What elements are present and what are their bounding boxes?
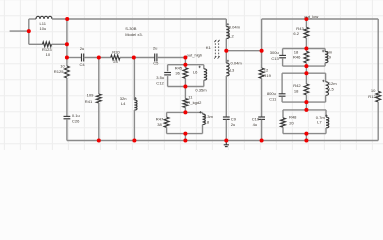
svg-text:R20: R20 [112,49,120,54]
svg-text:3.5u: 3.5u [156,75,164,80]
svg-text:L7: L7 [317,120,322,125]
svg-text:K1: K1 [206,45,212,50]
svg-text:S-30B: S-30B [125,26,137,31]
svg-text:24: 24 [113,59,118,64]
svg-text:4u: 4u [253,122,258,127]
svg-text:11: 11 [188,94,193,99]
svg-text:300u: 300u [270,50,279,55]
svg-text:R_kgd2: R_kgd2 [187,100,202,105]
svg-text:L8: L8 [205,119,210,124]
svg-text:out_high: out_high [187,52,203,57]
svg-text:L6: L6 [193,69,198,74]
svg-text:R126: R126 [368,94,378,99]
svg-text:6.2: 6.2 [293,31,299,36]
svg-text:C9: C9 [231,116,237,121]
svg-text:0.35m: 0.35m [195,88,207,93]
svg-text:10u: 10u [40,26,47,31]
svg-text:L2: L2 [229,33,234,38]
svg-text:36: 36 [175,71,180,76]
svg-text:R42: R42 [293,83,301,88]
svg-text:10: 10 [371,88,376,93]
svg-text:38: 38 [157,122,162,127]
svg-text:C10: C10 [252,116,260,121]
svg-text:out_low: out_low [304,14,318,19]
svg-text:Model x3.: Model x3. [125,32,143,37]
svg-text:12: 12 [264,67,269,72]
svg-text:2u: 2u [153,45,158,50]
svg-text:C12: C12 [156,81,164,86]
svg-text:L5: L5 [329,86,334,91]
svg-text:C4: C4 [80,62,86,67]
svg-text:C11: C11 [269,97,277,102]
svg-text:0.04m: 0.04m [231,61,243,66]
svg-text:R125: R125 [54,69,64,74]
svg-text:R47: R47 [156,116,164,121]
svg-text:2u: 2u [80,46,85,51]
svg-text:0.1u: 0.1u [72,113,80,118]
svg-text:C13: C13 [271,56,279,61]
svg-text:20: 20 [289,121,294,126]
svg-text:R19: R19 [263,73,271,78]
svg-text:C26: C26 [72,119,80,124]
svg-text:109: 109 [87,92,95,97]
svg-text:2u: 2u [231,122,236,127]
svg-text:800u: 800u [267,91,276,96]
svg-text:L3: L3 [230,68,235,73]
svg-text:R48: R48 [289,114,297,119]
svg-text:18: 18 [294,89,299,94]
svg-text:R46: R46 [293,54,301,59]
svg-text:L9: L9 [327,55,332,60]
svg-text:R41: R41 [85,99,93,104]
svg-text:C5: C5 [153,61,159,66]
svg-text:10: 10 [46,52,51,57]
svg-text:L4: L4 [121,101,126,106]
svg-text:0.04m: 0.04m [229,25,241,30]
